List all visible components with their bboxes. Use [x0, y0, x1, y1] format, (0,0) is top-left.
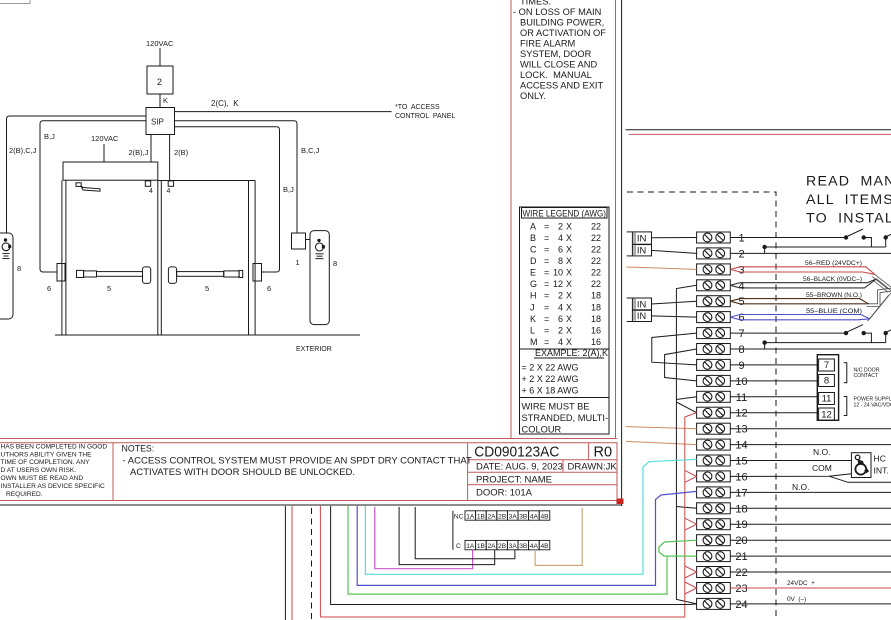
- wire 2(B),C,J from SIP to left bollard: [7, 116, 147, 233]
- svg-text:B: B: [530, 233, 536, 243]
- svg-text:=: =: [544, 221, 549, 231]
- svg-text:4: 4: [167, 188, 171, 195]
- wire B,C,J from SIP to box 1: [175, 121, 298, 233]
- svg-text:ACCESS AND EXIT: ACCESS AND EXIT: [520, 81, 603, 91]
- svg-text:M: M: [530, 337, 538, 347]
- second door contact switch (cut at edge): [884, 235, 888, 239]
- svg-text:2A: 2A: [487, 543, 496, 550]
- IN box (terminal 5): [632, 298, 651, 310]
- svg-text:C: C: [456, 543, 461, 550]
- svg-text:2B: 2B: [498, 543, 507, 550]
- svg-text:5: 5: [738, 296, 744, 308]
- svg-text:TIMES.: TIMES.: [520, 0, 551, 7]
- black riser lower sheet: [284, 506, 286, 620]
- svg-text:2: 2: [558, 325, 563, 335]
- svg-text:23: 23: [735, 583, 747, 595]
- plug connector outer box: [817, 355, 838, 421]
- green wire terminal 21 riser: [348, 506, 667, 594]
- black bus wire t4-t11-t12-t18-t24: [676, 285, 696, 604]
- svg-text:=: =: [544, 256, 549, 266]
- wires terminals 9-12 to plug: [730, 364, 817, 366]
- svg-text:REQUIRED.: REQUIRED.: [6, 491, 43, 498]
- svg-text:=: =: [544, 279, 549, 289]
- svg-text:1A: 1A: [466, 513, 475, 520]
- svg-text:22: 22: [591, 256, 601, 266]
- wire SIP to access control panel: [175, 111, 392, 113]
- partial box top-left corner: [0, 0, 30, 4]
- svg-text:N.O.: N.O.: [813, 447, 830, 457]
- tan wire from C 4A: [535, 508, 582, 565]
- svg-text:10: 10: [735, 376, 747, 388]
- svg-text:X: X: [566, 233, 572, 243]
- wire terminal 15 to HC interior box: [730, 460, 851, 462]
- red border line notes column left: [510, 0, 512, 439]
- svg-text:X: X: [566, 302, 572, 312]
- svg-text:IN: IN: [637, 234, 647, 245]
- svg-text:X: X: [566, 337, 572, 347]
- wire terminal 17: [730, 491, 891, 493]
- cable flag outline: [730, 279, 876, 286]
- svg-text:TIME OF COMPLETION. ANY: TIME OF COMPLETION. ANY: [1, 459, 91, 466]
- wire terminal 1 to door contact switches: [730, 237, 846, 239]
- svg-text:2(C), K: 2(C), K: [211, 99, 239, 108]
- HC interior actuator box: [851, 453, 871, 478]
- wire terminal 7 to door contact switches: [730, 332, 846, 334]
- svg-text:COM: COM: [812, 463, 832, 473]
- svg-text:CD090123AC: CD090123AC: [474, 443, 559, 460]
- svg-text:R0: R0: [594, 444, 613, 460]
- svg-text:3A: 3A: [509, 543, 518, 550]
- legend example section: [520, 348, 610, 350]
- wire 2(B) SIP to door device 4: [169, 135, 171, 181]
- svg-text:CONTROL PANEL: CONTROL PANEL: [395, 113, 455, 120]
- terminal 11: [697, 391, 748, 404]
- component SIP box: [146, 108, 175, 135]
- svg-text:22: 22: [591, 268, 601, 278]
- svg-text:K: K: [530, 314, 536, 324]
- svg-text:LOCK. MANUAL: LOCK. MANUAL: [520, 70, 592, 80]
- svg-text:6: 6: [738, 312, 744, 324]
- svg-text:B,C,J: B,C,J: [301, 146, 320, 155]
- svg-text:3A: 3A: [509, 513, 518, 520]
- svg-text:B,J: B,J: [44, 132, 55, 141]
- wire 120VAC to box 2: [159, 48, 161, 66]
- push button receiver box 1: [292, 233, 306, 249]
- svg-text:22: 22: [735, 567, 747, 579]
- svg-text:4: 4: [558, 233, 563, 243]
- relay output connector NC row: [452, 511, 454, 550]
- title block separators: [112, 443, 114, 501]
- plug pin 7: [819, 359, 835, 371]
- terminal 15: [697, 455, 748, 468]
- wires IN boxes to terminals 1,2,5,6: [652, 237, 697, 239]
- svg-text:14: 14: [735, 440, 747, 452]
- svg-text:4B: 4B: [540, 513, 549, 520]
- svg-text:12: 12: [553, 279, 563, 289]
- wire 120VAC to header: [103, 144, 105, 162]
- bollard 8 with HC actuator (left): [0, 233, 13, 319]
- svg-text:WIRE MUST BE: WIRE MUST BE: [522, 402, 590, 412]
- door position switch 4 (right): [168, 181, 173, 186]
- svg-text:9: 9: [738, 360, 744, 372]
- svg-text:=: =: [544, 268, 549, 278]
- svg-text:UTHORS ABILITY GIVEN THE: UTHORS ABILITY GIVEN THE: [1, 451, 93, 458]
- terminal 5: [697, 296, 745, 309]
- svg-text:INT.: INT.: [874, 466, 889, 476]
- svg-text:ONLY.: ONLY.: [520, 91, 546, 101]
- svg-text:11: 11: [736, 392, 747, 404]
- svg-text:X: X: [566, 268, 572, 278]
- bracket N/C door contact: [844, 363, 847, 383]
- svg-text:K: K: [163, 96, 168, 105]
- svg-text:24VDC +: 24VDC +: [787, 580, 815, 587]
- terminal 21: [697, 551, 748, 564]
- svg-text:8: 8: [558, 256, 563, 266]
- black wire to C 2A: [399, 507, 495, 565]
- svg-text:D: D: [530, 256, 537, 266]
- svg-text:3: 3: [738, 264, 744, 276]
- svg-text:22: 22: [591, 233, 601, 243]
- svg-text:2(B),J: 2(B),J: [129, 148, 149, 157]
- IN box (terminal 1): [632, 232, 651, 244]
- svg-text:+ 6 X 18 AWG: + 6 X 18 AWG: [522, 386, 579, 396]
- svg-text:56–RED (24VDC+): 56–RED (24VDC+): [805, 260, 862, 267]
- svg-text:3B: 3B: [519, 543, 528, 550]
- svg-text:1: 1: [296, 258, 300, 267]
- svg-text:8: 8: [824, 376, 829, 387]
- svg-text:6: 6: [558, 245, 563, 255]
- disclaimer text: [1, 443, 108, 497]
- svg-text:4: 4: [738, 280, 744, 292]
- svg-text:18: 18: [591, 302, 601, 312]
- svg-text:22: 22: [591, 279, 601, 289]
- svg-text:=: =: [544, 302, 549, 312]
- svg-text:12: 12: [735, 408, 747, 420]
- terminal 23: [697, 583, 748, 596]
- svg-text:6: 6: [558, 314, 563, 324]
- svg-text:ACTIVATES WITH DOOR SHOULD BE: ACTIVATES WITH DOOR SHOULD BE UNLOCKED.: [130, 467, 355, 478]
- title block border: [0, 443, 617, 501]
- svg-text:11: 11: [822, 394, 832, 405]
- svg-text:120VAC: 120VAC: [146, 39, 174, 48]
- terminal 14: [697, 439, 748, 452]
- svg-text:X: X: [566, 314, 572, 324]
- svg-text:12 - 24 VAC/VDC: 12 - 24 VAC/VDC: [854, 403, 891, 409]
- svg-text:10: 10: [553, 268, 563, 278]
- wire terminal 22: [730, 571, 891, 573]
- svg-text:=: =: [544, 325, 549, 335]
- svg-text:1B: 1B: [477, 513, 486, 520]
- svg-text:X: X: [566, 256, 572, 266]
- svg-text:X: X: [566, 245, 572, 255]
- svg-text:C: C: [530, 245, 537, 255]
- wire terminal 19: [730, 523, 891, 525]
- svg-text:22: 22: [591, 245, 601, 255]
- svg-text:HAS BEEN COMPLETED IN GOOD: HAS BEEN COMPLETED IN GOOD: [1, 443, 108, 450]
- svg-text:21: 21: [735, 551, 747, 563]
- IN box (terminal 2): [632, 245, 651, 256]
- wire B,J from SIP to right door loop 6: [175, 127, 280, 272]
- svg-text:18: 18: [591, 314, 601, 324]
- svg-text:8: 8: [738, 344, 744, 356]
- svg-text:IN: IN: [637, 245, 646, 255]
- svg-text:SIP: SIP: [151, 118, 164, 127]
- svg-text:15: 15: [735, 456, 747, 468]
- svg-text:INSTALLER AS DEVICE SPECIFIC: INSTALLER AS DEVICE SPECIFIC: [1, 483, 106, 490]
- sheet C top border: [626, 129, 891, 131]
- svg-text:19: 19: [735, 519, 747, 531]
- terminal 7: [697, 328, 745, 341]
- svg-text:- ACCESS CONTROL SYSTEM MUST P: - ACCESS CONTROL SYSTEM MUST PROVIDE AN …: [123, 456, 472, 467]
- cable flag outline: [730, 299, 868, 304]
- svg-text:3B: 3B: [519, 513, 528, 520]
- svg-text:2: 2: [558, 291, 563, 301]
- component box 2 (power supply): [147, 66, 173, 94]
- black wire terminal 24 to lower sheet: [331, 506, 697, 605]
- wire (tan) to terminal 3: [626, 267, 696, 269]
- wire box2 to SIP: [159, 94, 161, 108]
- terminal 9: [697, 359, 745, 372]
- svg-text:B,J: B,J: [283, 185, 294, 194]
- plug pin 8: [819, 375, 835, 387]
- cable flag outline: [730, 267, 875, 275]
- svg-text:0V (–): 0V (–): [787, 596, 806, 603]
- svg-text:2: 2: [558, 221, 563, 231]
- svg-text:NC: NC: [454, 514, 464, 521]
- svg-text:56–BLACK (0VDC–): 56–BLACK (0VDC–): [803, 276, 862, 283]
- sheet A bottom black edge: [0, 504, 622, 506]
- svg-text:OR ACTIVATION OF: OR ACTIVATION OF: [520, 28, 606, 38]
- svg-text:BUILDING POWER,: BUILDING POWER,: [520, 18, 604, 28]
- switch return wire to terminal 2: [765, 238, 872, 254]
- wire terminal 21: [730, 555, 891, 557]
- terminal 22: [697, 567, 748, 580]
- black wire to C 3A: [415, 507, 515, 559]
- wire terminal 20: [730, 539, 891, 541]
- svg-text:X: X: [566, 291, 572, 301]
- READ MANUAL heading: [806, 174, 891, 227]
- magenta wire to C 1A: [375, 507, 473, 569]
- svg-text:=: =: [544, 291, 549, 301]
- switch return wire to terminal 8: [765, 333, 872, 349]
- svg-text:18: 18: [735, 503, 747, 515]
- svg-text:DOOR: 101A: DOOR: 101A: [476, 488, 533, 499]
- terminal 20: [697, 535, 748, 548]
- title block top red trim: [0, 438, 617, 440]
- cable tails to edge connector: [867, 274, 891, 321]
- terminal 16: [697, 471, 748, 484]
- svg-text:2(B),C,J: 2(B),C,J: [9, 146, 37, 155]
- door contact switch (N.O.): [844, 235, 848, 239]
- terminal 8: [697, 344, 745, 357]
- svg-text:12: 12: [821, 409, 832, 420]
- terminal 3: [697, 264, 745, 277]
- svg-text:DRAWN:JK: DRAWN:JK: [568, 462, 618, 473]
- sheet A right black edge: [621, 0, 623, 506]
- wire terminal 24 / 0V-: [730, 603, 891, 605]
- svg-text:7: 7: [738, 328, 744, 340]
- svg-text:1: 1: [738, 233, 744, 245]
- svg-text:2: 2: [738, 248, 744, 260]
- svg-text:EXAMPLE: 2(A),K: EXAMPLE: 2(A),K: [535, 348, 608, 358]
- svg-text:X: X: [566, 221, 572, 231]
- terminal 2: [697, 248, 745, 261]
- svg-text:WIRE LEGEND (AWG): WIRE LEGEND (AWG): [523, 209, 607, 219]
- IN box stubs: [627, 231, 633, 233]
- plug pin 12: [819, 408, 835, 420]
- exterior floor line: [55, 334, 360, 336]
- door operator header box: [63, 162, 158, 180]
- red corner square: [617, 499, 624, 505]
- second door contact switch (cut at edge): [884, 331, 888, 335]
- red riser lower sheet: [291, 506, 293, 620]
- wire terminal 18: [730, 507, 891, 509]
- power transfer hinge detail: [76, 183, 81, 187]
- svg-text:HC: HC: [874, 454, 886, 464]
- cable flag outline: [730, 315, 870, 319]
- terminal 12: [697, 407, 748, 420]
- svg-text:16: 16: [591, 325, 601, 335]
- svg-text:16: 16: [591, 337, 601, 347]
- svg-text:+ 2 X 22 AWG: + 2 X 22 AWG: [522, 374, 579, 384]
- svg-text:55–BLUE (COM): 55–BLUE (COM): [806, 308, 862, 315]
- svg-text:16: 16: [735, 471, 747, 483]
- svg-text:4A: 4A: [530, 513, 539, 520]
- plug pin 11: [819, 393, 835, 405]
- bracket power supply: [844, 397, 847, 416]
- bollard 8 with HC actuator (right): [310, 231, 329, 325]
- svg-text:L: L: [530, 325, 535, 335]
- wire terminal 2: [730, 252, 891, 254]
- svg-text:5: 5: [205, 284, 209, 293]
- svg-text:=: =: [544, 233, 549, 243]
- svg-text:IN: IN: [637, 298, 646, 309]
- red bus wire t12-t16-t19-t22-t23: [320, 413, 696, 617]
- wire terminal 13: [730, 428, 891, 430]
- svg-text:CONTACT: CONTACT: [854, 373, 880, 379]
- svg-text:SYSTEM, DOOR: SYSTEM, DOOR: [520, 49, 592, 59]
- svg-text:FIRE ALARM: FIRE ALARM: [520, 39, 575, 49]
- svg-text:OWN MUST BE READ AND: OWN MUST BE READ AND: [1, 475, 84, 482]
- svg-text:13: 13: [735, 424, 747, 436]
- green jumper t20-t21: [659, 540, 697, 556]
- svg-text:E: E: [530, 268, 536, 278]
- svg-text:PROJECT: NAME: PROJECT: NAME: [476, 475, 552, 486]
- svg-text:2A: 2A: [487, 513, 496, 520]
- svg-text:4B: 4B: [540, 543, 549, 550]
- svg-text:18: 18: [591, 291, 601, 301]
- svg-text:TO INSTALL: TO INSTALL: [806, 211, 891, 227]
- terminal 17: [697, 487, 748, 500]
- svg-text:22: 22: [591, 221, 601, 231]
- svg-text:7: 7: [824, 360, 829, 371]
- svg-text:20: 20: [735, 535, 747, 547]
- door contact switch (N.O.): [844, 331, 848, 335]
- svg-text:N.O.: N.O.: [792, 482, 809, 492]
- svg-text:=: =: [544, 314, 549, 324]
- terminal 13: [697, 423, 748, 436]
- wire 2(B),J SIP to operator header: [150, 135, 152, 162]
- svg-text:55–BROWN (N.O.): 55–BROWN (N.O.): [806, 292, 862, 299]
- dashed riser lower sheet: [311, 508, 313, 620]
- svg-text:4: 4: [558, 302, 563, 312]
- svg-text:8: 8: [333, 259, 337, 268]
- svg-text:D AT USERS OWN RISK.: D AT USERS OWN RISK.: [1, 467, 77, 474]
- cyan wire terminal 15: [365, 459, 696, 574]
- svg-text:EXTERIOR: EXTERIOR: [296, 346, 332, 353]
- red wire riser behind title block: [319, 506, 321, 617]
- svg-text:5: 5: [107, 284, 111, 293]
- svg-text:6: 6: [47, 284, 51, 293]
- svg-text:A: A: [530, 221, 536, 231]
- svg-text:STRANDED, MULTI-: STRANDED, MULTI-: [522, 413, 609, 423]
- terminal 10: [697, 375, 748, 388]
- svg-text:= 2 X 22 AWG: = 2 X 22 AWG: [522, 363, 579, 373]
- wire terminal 23 / 24VDC+: [730, 587, 891, 589]
- terminal 24: [697, 598, 748, 611]
- svg-text:NOTES:: NOTES:: [122, 443, 155, 453]
- exit device 5 (right door): [168, 267, 176, 284]
- svg-text:WILL CLOSE AND: WILL CLOSE AND: [520, 60, 597, 70]
- svg-text:1B: 1B: [477, 543, 486, 550]
- door loop 6 (right): [253, 264, 262, 282]
- jumper wire t7-t9: [652, 333, 697, 365]
- wire terminal 14: [730, 444, 891, 446]
- wire stub box 1 to bollard: [306, 239, 311, 241]
- svg-text:X: X: [566, 325, 572, 335]
- wire terminal 16: [730, 474, 851, 477]
- svg-text:4: 4: [149, 188, 153, 195]
- svg-text:=: =: [544, 245, 549, 255]
- terminal 4: [697, 280, 745, 293]
- svg-text:8: 8: [17, 264, 21, 273]
- svg-text:4A: 4A: [530, 543, 539, 550]
- svg-text:IN: IN: [637, 311, 646, 321]
- svg-text:- ON LOSS OF MAIN: - ON LOSS OF MAIN: [513, 7, 601, 17]
- svg-text:24: 24: [735, 599, 747, 611]
- blue wire terminal 17: [357, 491, 696, 585]
- red border line notes column right: [615, 0, 617, 439]
- door frame and leaves: [61, 181, 63, 336]
- svg-text:2: 2: [157, 77, 162, 87]
- wire (tan) to terminal 13: [626, 427, 697, 429]
- jumper wire t8-t10: [665, 349, 697, 381]
- svg-text:*TO ACCESS: *TO ACCESS: [395, 104, 440, 111]
- svg-text:6: 6: [267, 284, 271, 293]
- svg-text:COLOUR: COLOUR: [522, 425, 562, 435]
- svg-text:1A: 1A: [466, 543, 475, 550]
- wire terminal 8: [730, 348, 891, 350]
- svg-text:4: 4: [558, 337, 563, 347]
- svg-text:G: G: [530, 279, 537, 289]
- svg-text:2(B): 2(B): [174, 148, 189, 157]
- svg-text:2B: 2B: [498, 513, 507, 520]
- svg-text:120VAC: 120VAC: [91, 134, 119, 143]
- svg-text:DATE: AUG. 9, 2023: DATE: AUG. 9, 2023: [476, 462, 563, 473]
- terminal 18: [697, 503, 748, 516]
- dashed boundary: [627, 192, 776, 620]
- door loop 6 (left): [57, 264, 65, 282]
- svg-text:17: 17: [735, 487, 747, 499]
- wire (tan) to terminal 14: [626, 441, 697, 444]
- svg-text:J: J: [530, 302, 535, 312]
- svg-text:=: =: [544, 337, 549, 347]
- wire legend table: [520, 207, 610, 434]
- notes text block: [513, 0, 606, 101]
- terminal 1: [697, 232, 745, 245]
- terminal 19: [697, 519, 748, 532]
- svg-text:H: H: [530, 291, 537, 301]
